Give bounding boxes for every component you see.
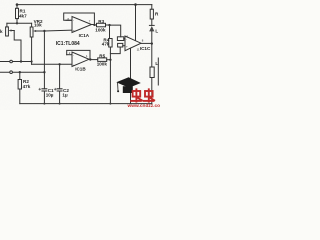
svg-text:-: - [73, 53, 74, 57]
watermark character chong 2 [144, 89, 155, 101]
node IC1B + / C2 junction [58, 63, 60, 65]
node R4/R5 junction [109, 59, 111, 61]
watermark logo graduation cap [116, 77, 141, 93]
node IC1B output junction [89, 58, 91, 60]
resistor R6 [150, 9, 153, 19]
svg-text:+: + [73, 29, 75, 33]
svg-text:L: L [155, 29, 158, 34]
resistor R3 [94, 24, 96, 26]
svg-text:R3: R3 [98, 19, 104, 24]
svg-text:IC1C: IC1C [140, 46, 151, 51]
node top rail / IC1C V+ junction [134, 3, 137, 6]
wire IC1A feedback loop [64, 13, 95, 25]
wire node to IC1C inverting input [110, 25, 121, 37]
svg-text:4k7: 4k7 [19, 13, 27, 18]
op-amp U1 IC1A [72, 17, 92, 33]
wire IC1C + input network [110, 47, 120, 54]
resistor R at IC1C - input [117, 37, 123, 41]
svg-text:IC1B: IC1B [75, 67, 86, 72]
wire VR2 wiper to IC1A + input [39, 29, 72, 32]
wire IC1C V- to bottom rail [130, 48, 132, 103]
svg-text:www.cndzz.com: www.cndzz.com [127, 103, 161, 109]
wire VR1 wiper jog down to upper input line [14, 31, 21, 62]
node upper line / VR1 wiper junction [20, 60, 22, 62]
svg-text:L: L [155, 61, 158, 66]
wire right column from top rail [151, 5, 153, 10]
resistor R1 [16, 5, 18, 9]
node IC1C output / right column junction [151, 42, 153, 44]
component right edge box [150, 67, 154, 78]
wire bottom ground rail [20, 103, 152, 105]
svg-text:+: + [126, 45, 128, 49]
svg-text:R5: R5 [99, 53, 105, 58]
svg-text:IC1A: IC1A [79, 33, 90, 38]
svg-text:10µ: 10µ [46, 92, 54, 97]
svg-text:47k: 47k [23, 84, 31, 89]
wire wiper node down to lower input line [43, 31, 45, 72]
capacitor C1 [43, 72, 45, 89]
potentiometer VR1 [6, 23, 8, 27]
node IC1A output junction [93, 24, 95, 26]
wire R1 bottom to VR1/VR2 tops [7, 22, 32, 24]
resistor R5 [90, 59, 97, 61]
resistor R at IC1C + input [118, 43, 123, 47]
svg-text:IC1:TL084: IC1:TL084 [56, 41, 80, 47]
svg-text:1µ: 1µ [62, 92, 68, 97]
node lower line / C1 junction [43, 71, 45, 73]
watermark character chong 1 [131, 89, 142, 101]
resistor R4 [109, 25, 111, 38]
svg-text:47k: 47k [102, 42, 110, 47]
wire IC1C output [141, 42, 152, 44]
node lower line / R2 junction [19, 71, 21, 73]
node rail C1 [43, 103, 45, 105]
svg-text:k: k [0, 29, 3, 34]
node rail R4 column [109, 103, 111, 105]
node R3/R4 junction [108, 24, 110, 26]
svg-text:100k: 100k [95, 27, 106, 32]
wire right edge stub [157, 58, 159, 85]
wire lower input line [0, 71, 44, 73]
wire upper input line [0, 61, 32, 63]
wire IC1B feedback loop [67, 50, 90, 59]
potentiometer VR2 [31, 23, 33, 27]
svg-text:10k: 10k [34, 23, 42, 28]
capacitor C2 [59, 64, 61, 89]
wire top supply rail [17, 4, 152, 6]
node upper line / VR2 bottom junction [31, 60, 33, 62]
terminal input A [10, 60, 13, 63]
node wiper/C1 branch junction [43, 30, 45, 32]
wire VR2 bottom to IC1B + input [32, 63, 72, 65]
svg-text:11: 11 [137, 47, 140, 51]
node rail C2 [59, 103, 61, 105]
terminal input B [10, 71, 13, 74]
resistor R2 [19, 72, 21, 79]
wire IC1C V+ from top rail [135, 5, 137, 41]
diode D1 [149, 24, 154, 26]
wire right column below output node [151, 44, 153, 67]
op-amp U3 IC1C [125, 36, 141, 51]
node top rail / R1 junction [16, 3, 19, 6]
node R1 bottom junction [16, 22, 18, 24]
svg-text:+: + [73, 63, 75, 67]
svg-text:100k: 100k [97, 61, 108, 66]
wire VR2 bottom lead down [31, 37, 33, 64]
op-amp U2 IC1B [72, 52, 89, 67]
svg-text:-: - [73, 19, 74, 23]
